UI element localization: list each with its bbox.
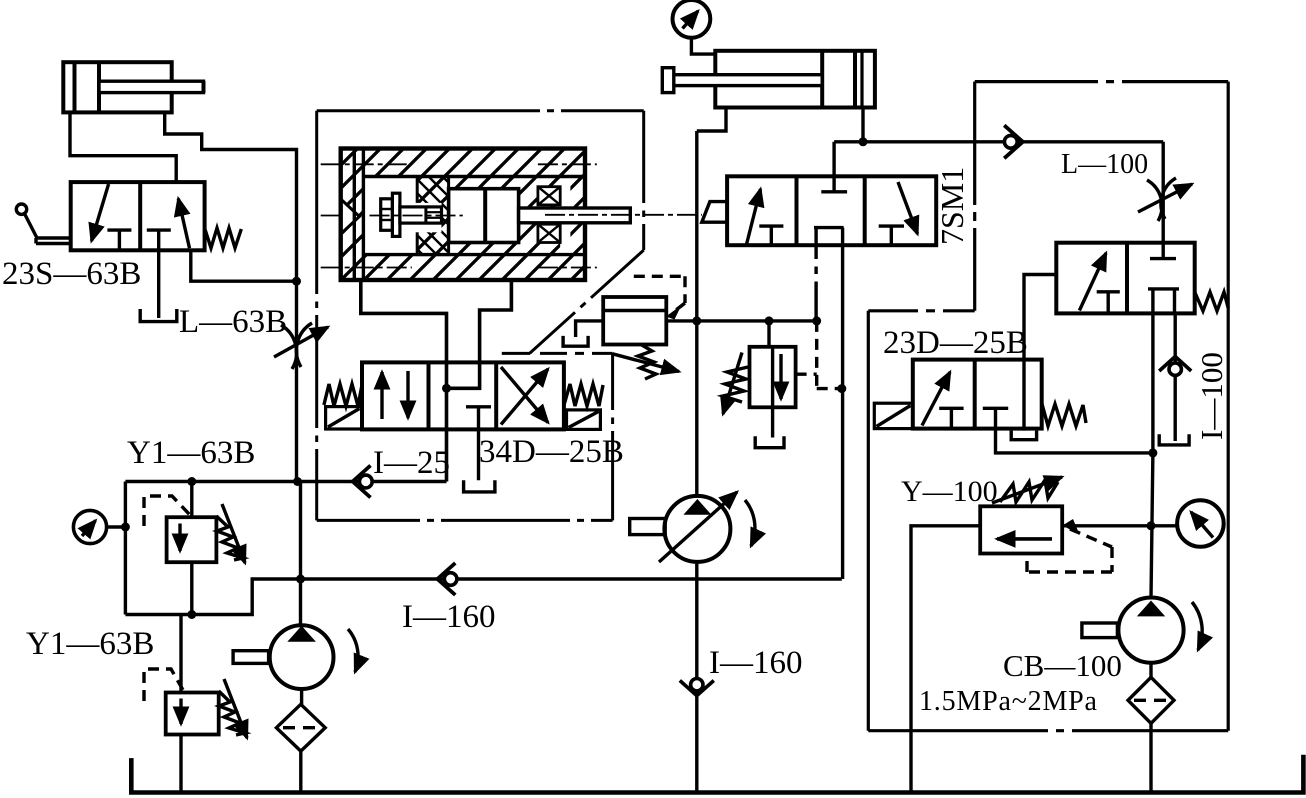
svg-text:34D—25B: 34D—25B <box>479 434 624 470</box>
relief valve Y-100 <box>980 506 1062 553</box>
svg-text:L—63B: L—63B <box>179 304 287 340</box>
pilot dashed loop of Y-100 <box>1027 529 1112 572</box>
wire: top line down to throttle <box>1161 142 1164 243</box>
pilot dashed of sequence valve <box>634 276 685 310</box>
gland block (reverse hatch) <box>417 177 448 255</box>
spring of upper Y1 valve <box>216 504 245 563</box>
node: junction 23S drain <box>292 277 301 286</box>
tank below center relief valve <box>755 436 784 448</box>
pump (main, variable displacement) <box>630 492 755 562</box>
valve 34D-25B (3-pos 4-way solenoid valve) <box>362 362 564 480</box>
adjust arrow of sequence valve <box>613 354 680 372</box>
wire: rail to pump <box>299 482 302 626</box>
wire: Y-100 left port to tank <box>911 526 980 793</box>
svg-text:CB—100: CB—100 <box>1003 648 1122 683</box>
wire: right valve bottom-right leg to check I-100 <box>1173 313 1176 362</box>
node: main line junction <box>692 316 701 325</box>
valve 23S-63B (2-pos 3-way lever valve) <box>71 182 205 250</box>
pilot dashed line of lower Y1 valve <box>144 669 183 701</box>
wire: 23D outlet to right branch <box>996 429 1153 453</box>
wire: bottom rail and step to I-160 line <box>125 579 841 615</box>
wire: left cylinder port B down right side <box>165 112 297 481</box>
piston rod of booster <box>519 208 631 223</box>
check valve I-160 (left, on horizontal line) <box>437 563 457 595</box>
gauge (left) <box>73 510 125 543</box>
check valve (on top line) <box>1004 125 1023 158</box>
wire: pump to filter <box>300 689 303 705</box>
wire: booster right leg into valve middle <box>447 280 512 388</box>
tank (main reservoir line) <box>131 755 1303 793</box>
node: gauge tap <box>121 523 130 532</box>
wire: left cylinder port A to valve 23S top <box>70 112 176 182</box>
check valve I-160 (suction, bottom) <box>680 679 714 696</box>
wire: main vertical line (cylinder to pump to tank) <box>695 131 698 793</box>
wire: filter to tank <box>299 751 302 792</box>
node: relief branch junction <box>765 316 774 325</box>
node: gauge and Y-100 junction <box>1147 521 1156 530</box>
lever actuator of 23S-63B <box>16 204 70 244</box>
spring left of 34D <box>324 384 362 406</box>
cylinder (top-center work cylinder) <box>662 51 875 108</box>
centerlines (chain thin) <box>321 164 702 267</box>
wire: top distribution line to right side <box>834 140 1163 143</box>
wire: right valve bottom-left leg down <box>1151 313 1154 453</box>
svg-text:I—25: I—25 <box>373 445 450 481</box>
pilot dashed line of upper Y1 valve <box>144 496 190 526</box>
cylinder (top-left machine cylinder) <box>63 62 203 112</box>
valve 23D-25B (2-pos solenoid valve) <box>913 360 1042 429</box>
valve 7SM1 (3-pos pilot valve) <box>727 142 936 245</box>
spring of sequence valve <box>638 345 656 380</box>
svg-text:Y1—63B: Y1—63B <box>127 435 255 471</box>
wire: right valve left port to 23D pass-through and tank <box>1024 275 1056 431</box>
spring of right valve <box>1195 292 1229 311</box>
check valve I-100 <box>1159 357 1191 442</box>
tank below 23D pass-through <box>1011 431 1036 440</box>
solenoid left of 34D <box>326 407 362 429</box>
relief valve Y1-63B (upper) <box>167 482 217 615</box>
svg-text:23S—63B: 23S—63B <box>2 256 141 292</box>
spring right of 34D <box>564 384 603 406</box>
pump CB-100 <box>1082 598 1202 663</box>
booster cylinder body (sectioned, hatched) <box>341 149 585 281</box>
check valve I-25 <box>353 466 373 498</box>
wire: sequence valve left port to tank <box>576 321 604 337</box>
spring of 23D valve <box>1042 403 1086 426</box>
piston cavity of booster <box>449 189 519 243</box>
wire: booster left leg to valve <box>361 280 447 482</box>
svg-text:Y—100: Y—100 <box>901 475 998 508</box>
pilot dashed lines at center relief <box>796 321 842 389</box>
wire: 23S valve drain to junction <box>191 250 297 281</box>
sequence valve (pilot box, top) <box>603 297 666 345</box>
seal boxes with X <box>538 187 560 243</box>
filter (right, diamond) <box>1128 677 1174 723</box>
wire: Y-100 right port to pump line <box>1062 524 1151 527</box>
wire: pump to filter <box>1149 663 1152 678</box>
wire: filter to tank <box>1149 723 1152 792</box>
spring left of center relief <box>723 353 748 415</box>
wire: left loop vertical <box>124 482 127 615</box>
wire: pressure rail / I-25 line <box>125 480 446 483</box>
node: bottom rail junction <box>187 610 196 619</box>
wire: right pump vertical line <box>1151 453 1153 598</box>
node: pump branch junction <box>296 575 305 584</box>
spring of Y-100 (top) <box>992 477 1062 503</box>
bolt assembly inside booster <box>381 193 442 236</box>
valve (right, 2-pos pilot-operated) <box>1056 243 1194 314</box>
node: chain-line junction <box>812 316 821 325</box>
tank below check I-100 <box>1159 434 1189 445</box>
wire: sequence valve outlet to main line <box>666 319 816 322</box>
solenoid right of 34D <box>567 410 601 430</box>
node: junction at cylinder right port <box>859 137 868 146</box>
svg-text:I—100: I—100 <box>1194 352 1229 440</box>
pilot arrowhead into Y-100 <box>1063 519 1080 535</box>
pilot arrowhead into sequence valve <box>666 305 682 320</box>
spring of 23S-63B <box>205 228 242 248</box>
svg-text:L—100: L—100 <box>1061 149 1148 180</box>
node: junction right branch <box>1148 448 1157 457</box>
relief valve (center) <box>750 321 796 438</box>
svg-text:Y1—63B: Y1—63B <box>26 626 154 662</box>
throttle valve L-100 <box>1138 178 1192 221</box>
tank L-63B below valve 23S <box>140 250 177 321</box>
pump (left, fixed displacement) <box>233 625 358 689</box>
tank below 34D valve <box>464 480 495 492</box>
tank below sequence valve <box>563 336 588 346</box>
node: pilot junction on drain line <box>837 384 846 393</box>
solenoid of 23D valve <box>874 403 913 428</box>
node: internal junction in valve 34D <box>442 384 451 393</box>
filter (left, diamond) <box>276 704 325 751</box>
svg-text:I—160: I—160 <box>709 645 803 681</box>
svg-text:I—160: I—160 <box>402 599 496 635</box>
svg-text:1.5MPa~2MPa: 1.5MPa~2MPa <box>919 686 1098 717</box>
wire: 7SM1 drain chain line <box>814 245 817 321</box>
node: rail junction at riser <box>293 477 302 486</box>
gauge (right) <box>1151 500 1224 547</box>
node: relief Y1 top port <box>187 477 196 486</box>
enclosure (right unit boundary) <box>868 82 1228 731</box>
svg-text:7SM1: 7SM1 <box>934 167 970 245</box>
spring of lower Y1 valve <box>219 679 247 738</box>
pilot actuator of 7SM1 <box>702 202 727 223</box>
relief valve Y1-63B (lower) <box>166 615 219 793</box>
gauge (top) <box>673 0 716 54</box>
wire: work cylinder right port down <box>861 108 864 142</box>
wire: work cylinder left port to main line <box>697 108 726 132</box>
wire: 7SM1 return line down to I-160 line <box>841 245 844 579</box>
throttle valve L-63B (adjustable restrictor on riser) <box>274 323 328 369</box>
svg-text:23D—25B: 23D—25B <box>883 325 1028 361</box>
enclosure (center unit dash-dot boundary) <box>317 111 644 521</box>
